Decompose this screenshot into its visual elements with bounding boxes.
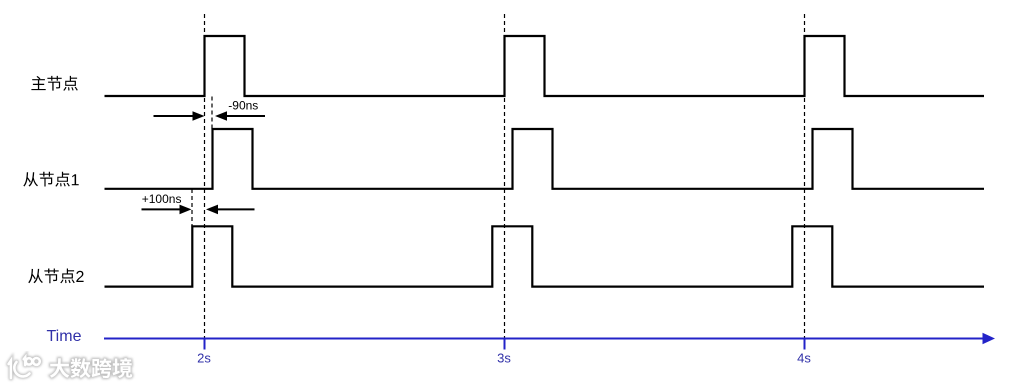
edge marker slave1 rising dashed bbox=[211, 97, 213, 130]
arrow +100ns right bbox=[206, 205, 255, 215]
gridline 4s dashed bbox=[804, 14, 806, 338]
svg-text:4s: 4s bbox=[797, 351, 811, 366]
arrow +100ns left bbox=[142, 205, 192, 215]
edge marker slave2 rising dashed bbox=[191, 189, 193, 226]
arrow -90ns right bbox=[215, 111, 265, 121]
tick 4s bbox=[804, 339, 806, 350]
svg-text:+100ns: +100ns bbox=[142, 192, 182, 206]
svg-text:3s: 3s bbox=[497, 351, 511, 366]
label slave node 2 从节点2 bbox=[28, 269, 83, 284]
svg-text:Time: Time bbox=[47, 328, 82, 345]
svg-text:-90ns: -90ns bbox=[228, 99, 258, 113]
label slave node 1 从节点1 bbox=[23, 172, 78, 187]
tick 3s bbox=[504, 339, 506, 350]
label master node 主节点 bbox=[31, 76, 77, 91]
time axis bbox=[104, 333, 995, 345]
watermark text 大数跨境 bbox=[50, 358, 132, 378]
gridline 2s dashed bbox=[204, 14, 206, 338]
waveform master node bbox=[105, 36, 985, 96]
gridline 3s dashed bbox=[504, 14, 506, 338]
waveform slave node 1 bbox=[105, 129, 985, 189]
arrow -90ns left bbox=[154, 111, 205, 121]
watermark logo bbox=[9, 357, 40, 378]
svg-text:2s: 2s bbox=[197, 351, 211, 366]
waveform slave node 2 bbox=[105, 226, 985, 286]
tick 2s bbox=[204, 339, 206, 350]
